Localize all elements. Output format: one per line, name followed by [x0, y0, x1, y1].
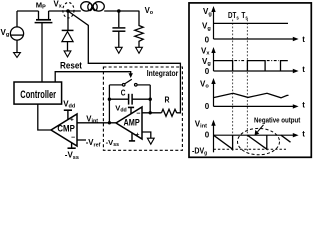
label t (Vg plot): [302, 35, 305, 44]
wire feedback right vertical: [149, 85, 151, 113]
svg-text:Negative output: Negative output: [254, 115, 301, 124]
label -Vref: [86, 138, 101, 148]
-DVg dashed level line: [214, 148, 287, 150]
switch (reset, across C): [109, 79, 150, 86]
ground (below load resistor): [136, 47, 143, 53]
svg-text:Reset: Reset: [60, 61, 82, 71]
label Vg: [1, 28, 10, 38]
svg-text:0: 0: [205, 67, 210, 76]
waveform Vx pulses: [214, 61, 288, 71]
wire top rail Vg to Mp: [17, 10, 39, 12]
wire AMP - input to R: [142, 112, 162, 114]
supply -Vss (AMP): [129, 133, 135, 141]
voltage source Vg: [10, 11, 23, 53]
op-amp U1 CMP (comparator): [51, 114, 77, 146]
node amp - input junction: [149, 111, 152, 114]
node DTs dashed line: [232, 20, 234, 153]
axis Vx plot: [214, 50, 295, 71]
node Vx (dot + dashed circle): [63, 3, 74, 18]
waveform Vx level dash-dot: [234, 60, 278, 62]
wire CMP - input (-Vref): [77, 139, 86, 141]
wire CMP + input (Vint): [77, 122, 116, 124]
wire Reset (controller to integrator switch): [55, 72, 131, 82]
svg-text:+: +: [70, 117, 74, 124]
waveform Vo ripple: [214, 93, 289, 98]
label Vx: [54, 0, 62, 9]
ground (below Vg): [14, 53, 21, 58]
axis Vo plot: [214, 81, 295, 106]
diode (Vx to ground): [62, 11, 74, 51]
waveform Vint sawtooth: [214, 135, 291, 149]
node (output junction dot): [117, 9, 121, 13]
axis Vg plot: [214, 9, 295, 39]
label 0 (Vx plot): [205, 67, 210, 76]
supply Vdd (CMP): [64, 110, 72, 119]
controller box: [14, 82, 62, 104]
svg-text:t: t: [302, 35, 305, 44]
inductor: [81, 2, 140, 11]
svg-text:AMP: AMP: [124, 118, 140, 128]
node cap junction: [149, 98, 152, 101]
supply Vdd (AMP): [128, 107, 134, 114]
wire Vx sense diagonal to integrator input: [68, 11, 180, 113]
wire CMP output to controller: [38, 104, 51, 130]
ground (below diode): [64, 51, 71, 57]
annotation arrow: [255, 125, 264, 136]
panel frame: [189, 3, 311, 157]
wire feedback left vertical: [108, 85, 110, 123]
resistor (load): [135, 11, 143, 47]
svg-text:R: R: [165, 95, 170, 104]
label R: [165, 95, 170, 104]
label Mp: [36, 1, 46, 11]
label Negative output: [254, 115, 301, 124]
wire Mp drain to node Vx: [49, 10, 81, 12]
svg-text:t: t: [302, 130, 305, 139]
svg-text:Integrator: Integrator: [147, 68, 179, 78]
arrowhead reset: [129, 73, 133, 78]
axis Vint plot: [214, 123, 295, 153]
svg-text:0: 0: [205, 102, 210, 111]
label Vg (axis): [203, 7, 212, 17]
label -DVg: [192, 147, 208, 157]
integrator dashed box: [103, 67, 182, 150]
svg-text:−: −: [71, 135, 75, 142]
label Vx (axis): [201, 46, 210, 56]
supply -Vss (CMP): [68, 143, 76, 149]
label 0 (Vo plot): [205, 102, 210, 111]
label Vo: [145, 6, 154, 16]
svg-text:t: t: [302, 101, 305, 110]
svg-text:0: 0: [205, 36, 210, 45]
svg-text:CMP: CMP: [57, 123, 74, 134]
node cap left junction: [108, 98, 111, 101]
capacitor C (integrator feedback): [109, 94, 150, 105]
label t (Vo plot): [302, 101, 305, 110]
ground (AMP + input): [147, 138, 154, 144]
label DTs: [228, 11, 239, 21]
resistor R (integrator input): [162, 109, 177, 116]
label t (Vint plot): [302, 130, 305, 139]
node Ts dashed line: [246, 20, 248, 153]
label Vg (level): [202, 22, 211, 32]
waveform Vg constant line: [214, 22, 289, 24]
svg-text:0: 0: [205, 130, 210, 139]
label Vint (axis): [195, 119, 207, 129]
svg-text:−: −: [136, 110, 140, 117]
op-amp U2 AMP (integrator): [116, 107, 142, 139]
label Integrator: [147, 68, 179, 78]
transistor Mp (PMOS): [35, 11, 53, 82]
label Vg (level, Vx plot): [202, 57, 211, 67]
label Reset: [60, 61, 82, 71]
label 0 (Vint plot): [205, 130, 210, 139]
label t (Vx plot): [302, 65, 305, 74]
node Vint junction: [108, 121, 111, 124]
svg-text:Controller: Controller: [20, 89, 56, 101]
ground (below output cap): [115, 47, 122, 53]
svg-text:t: t: [302, 65, 305, 74]
svg-text:+: +: [136, 132, 140, 139]
label C: [121, 89, 126, 98]
label Vo (axis): [200, 80, 209, 90]
capacitor (output filter): [112, 11, 125, 47]
label Ts: [241, 11, 248, 21]
annotation ellipse (negative output): [238, 128, 280, 154]
svg-text:C: C: [121, 89, 126, 98]
label Vint: [86, 114, 98, 124]
wire AMP + input to ground: [142, 132, 151, 138]
label 0 (Vg plot): [205, 36, 210, 45]
